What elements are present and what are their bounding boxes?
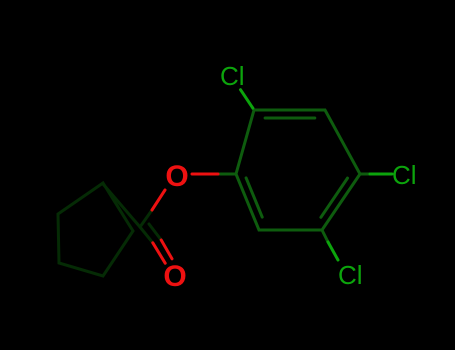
svg-text:O: O (163, 260, 186, 293)
svg-text:Cl: Cl (392, 160, 417, 190)
svg-text:O: O (165, 160, 188, 193)
svg-text:Cl: Cl (220, 61, 245, 91)
red ester bonds (152, 174, 218, 263)
C=O double bond (red halves) (153, 243, 165, 263)
C-Cl bonds (bright green halves) (241, 90, 393, 260)
O to carbonyl bond (red half) (152, 190, 165, 210)
bond ring CH - carbonyl C (103, 184, 140, 227)
benzene ring (2,4,5-trichlorophenyl, dark green skeleton) (218, 108, 370, 242)
svg-text:Cl: Cl (338, 260, 363, 290)
O to ring bond (red half) (192, 173, 218, 176)
dark half of C4-Cl bond (360, 173, 370, 176)
aromatic inner double bonds (265, 117, 315, 120)
dark half of O-C(carbonyl) bond (140, 210, 152, 227)
cyclopentane ring (acyl substituent, very dark green) (58, 183, 161, 276)
dark half of C2-Cl bond (253, 108, 254, 110)
dark half of C5-Cl bond (322, 230, 328, 242)
dark half of C1-O bond (218, 173, 236, 176)
dark halves of C=O double bond (140, 227, 153, 243)
